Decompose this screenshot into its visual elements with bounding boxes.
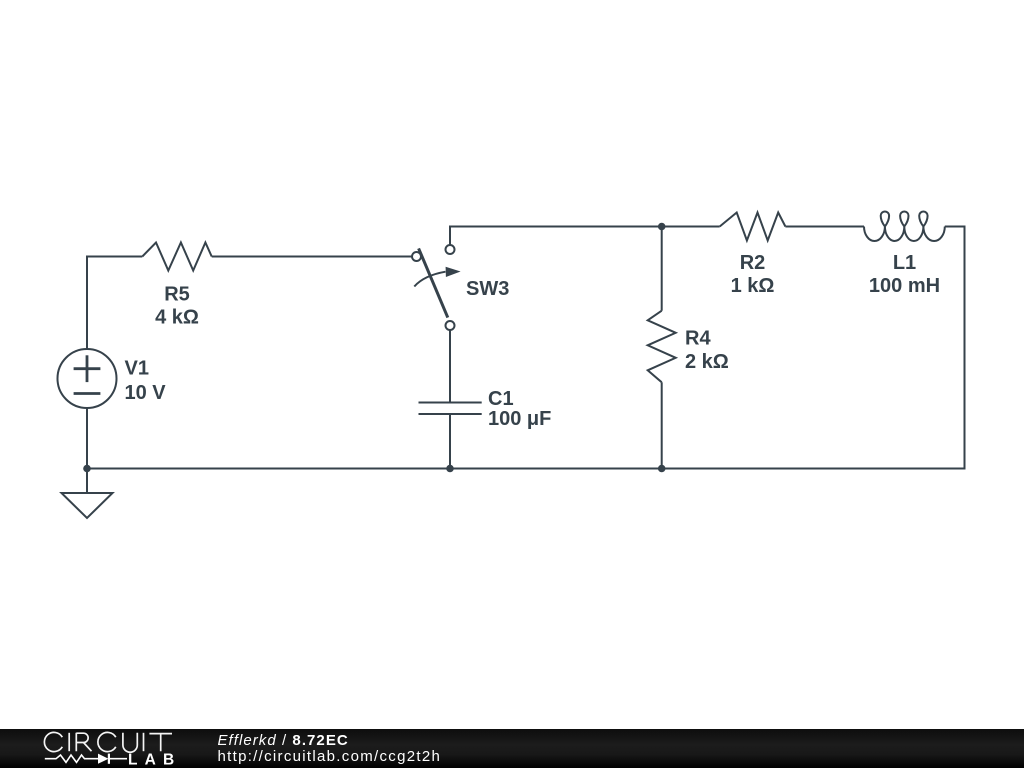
- svg-text:R4: R4: [685, 328, 711, 350]
- svg-text:2 kΩ: 2 kΩ: [685, 351, 729, 373]
- svg-text:C1: C1: [488, 388, 514, 410]
- svg-text:V1: V1: [125, 358, 149, 380]
- svg-text:L1: L1: [893, 252, 916, 274]
- svg-text:100 μF: 100 μF: [488, 408, 551, 430]
- svg-text:1 kΩ: 1 kΩ: [731, 275, 775, 297]
- svg-text:LAB: LAB: [128, 752, 181, 768]
- svg-text:10 V: 10 V: [125, 382, 167, 404]
- svg-text:R5: R5: [164, 284, 190, 306]
- svg-text:SW3: SW3: [466, 278, 509, 300]
- svg-text:4 kΩ: 4 kΩ: [155, 307, 199, 329]
- svg-text:R2: R2: [740, 252, 766, 274]
- svg-text:100 mH: 100 mH: [869, 275, 940, 297]
